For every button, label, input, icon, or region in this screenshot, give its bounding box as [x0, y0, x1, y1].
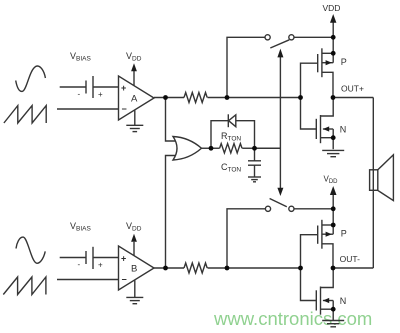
diode D1 branch — [211, 121, 255, 149]
svg-text:VDD: VDD — [126, 51, 142, 63]
wire — [154, 267, 184, 269]
battery VBIAS A — [86, 76, 93, 98]
ground N2 — [322, 321, 344, 327]
svg-text:+: + — [121, 83, 126, 93]
resistor R1 — [184, 93, 207, 103]
wire to OR top input — [166, 98, 180, 142]
wire to OR bottom input — [166, 156, 180, 269]
diode D1 — [228, 114, 236, 127]
svg-text:VDD: VDD — [323, 3, 341, 13]
VDD arrow B — [131, 234, 137, 256]
svg-text:+: + — [98, 90, 103, 99]
svg-text:+: + — [98, 261, 103, 270]
wire P1 gate — [301, 63, 318, 97]
transistor N1 — [316, 98, 333, 150]
node VDD switch top — [331, 35, 336, 40]
svg-text:N: N — [340, 125, 347, 135]
node VDD switch bottom — [331, 206, 336, 211]
svg-text:OUT-: OUT- — [340, 254, 360, 264]
wire — [93, 86, 119, 88]
svg-text:RTON: RTON — [221, 131, 241, 143]
wire — [57, 108, 119, 110]
ground A — [126, 110, 143, 132]
svg-text:P: P — [341, 229, 347, 239]
wire P2 gate — [301, 235, 318, 268]
node gates bottom — [298, 266, 303, 271]
node B output — [163, 266, 168, 271]
wire — [208, 97, 301, 99]
comparator B — [119, 246, 155, 290]
node A output — [163, 95, 168, 100]
svg-text:−: − — [122, 275, 127, 285]
node OUT- — [331, 266, 336, 271]
VDD arrow A — [131, 63, 137, 85]
wire — [60, 257, 86, 259]
node RTON/CTON — [252, 146, 257, 151]
wire — [294, 36, 333, 38]
switch S1 — [265, 35, 294, 48]
svg-text:CTON: CTON — [221, 162, 241, 174]
wire VDD rail — [332, 37, 334, 62]
ground N1 — [322, 150, 344, 156]
wire — [60, 86, 86, 88]
comparator A — [119, 76, 155, 120]
svg-text:VBIAS: VBIAS — [70, 51, 91, 63]
ground CTON — [248, 177, 261, 182]
svg-text:P: P — [341, 57, 347, 67]
triangle wave input (bottom) — [3, 277, 46, 295]
resistor RTON — [220, 144, 242, 153]
svg-text:+: + — [121, 254, 126, 264]
or-gate U1 — [173, 137, 202, 161]
wire OUT- — [333, 267, 373, 269]
wire — [57, 279, 119, 281]
wire N2 gate — [301, 268, 317, 301]
wire OUT+ — [333, 97, 373, 99]
wire switch branch (bottom) — [227, 209, 265, 268]
svg-text:N: N — [340, 296, 347, 306]
wire — [93, 257, 119, 259]
wire OR output — [202, 147, 212, 149]
node P2 source — [331, 223, 336, 228]
node switch branch bottom — [225, 266, 230, 271]
wire — [294, 208, 333, 210]
wire RTON right — [242, 147, 254, 149]
node N2 source — [331, 307, 336, 312]
sine wave input (bottom) — [16, 237, 45, 263]
svg-text:−: − — [122, 104, 127, 114]
wire switch branch (top) — [227, 37, 265, 97]
svg-text:VDD: VDD — [324, 175, 339, 186]
wire VDD rail bottom — [332, 209, 334, 234]
triangle wave input (top) — [4, 106, 46, 123]
wire to control line — [255, 147, 281, 149]
svg-text:VBIAS: VBIAS — [70, 221, 91, 233]
wire — [208, 267, 301, 269]
speaker LS1 — [370, 155, 394, 201]
node switch branch top — [225, 95, 230, 100]
wire RTON left — [211, 147, 220, 149]
svg-text:-: - — [78, 260, 81, 269]
svg-text:www.cntronics.com: www.cntronics.com — [213, 308, 372, 329]
svg-text:VDD: VDD — [126, 221, 142, 233]
resistor R2 — [184, 263, 207, 273]
transistor P2 — [318, 220, 334, 268]
svg-text:OUT+: OUT+ — [341, 84, 364, 94]
node OUT+ — [331, 95, 336, 100]
wire speaker vertical — [372, 98, 374, 269]
node N1 source — [331, 135, 336, 140]
VDD arrow (top rail) — [330, 14, 336, 37]
ground B — [126, 280, 143, 304]
wire N1 gate — [301, 98, 317, 130]
svg-text:-: - — [78, 90, 81, 99]
transistor N2 — [316, 268, 333, 321]
control line to switches — [277, 49, 283, 196]
node gates top — [298, 95, 303, 100]
svg-text:A: A — [131, 94, 138, 105]
battery VBIAS B — [86, 247, 93, 269]
node OR output — [209, 146, 214, 151]
switch S2 — [265, 199, 294, 212]
svg-text:B: B — [131, 264, 137, 275]
transistor P1 — [318, 48, 334, 97]
node P1 source — [331, 51, 336, 56]
sine wave input (top) — [16, 66, 46, 91]
capacitor CTON — [248, 148, 261, 177]
wire — [154, 97, 184, 99]
VDD arrow (bottom rail) — [330, 186, 337, 209]
